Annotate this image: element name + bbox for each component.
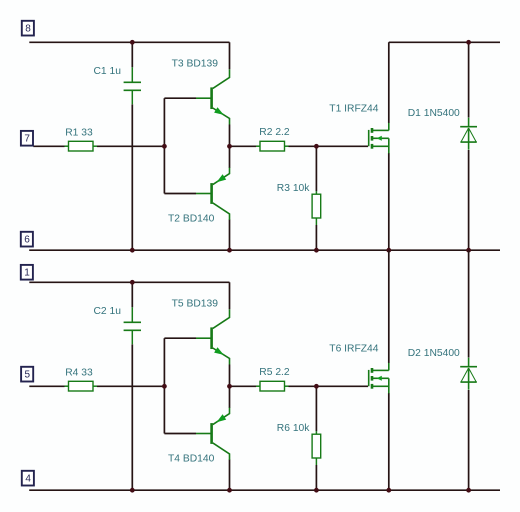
junction rail net 4	[466, 488, 471, 493]
svg-text:D1 1N5400: D1 1N5400	[408, 108, 460, 119]
wire R1 to bases	[97, 145, 164, 147]
wire R6 top	[315, 386, 317, 431]
junction C1 top node	[130, 40, 135, 45]
wire D1 anode down	[468, 150, 470, 250]
svg-text:R1 33: R1 33	[65, 128, 93, 139]
transistor T6 MOSFET	[369, 363, 389, 393]
wire base bracket vertical	[163, 338, 165, 433]
wire rail net 4	[29, 489, 500, 491]
transistor T3 NPN	[196, 69, 230, 124]
wire from terminal 7	[33, 145, 64, 147]
wire R2 to gate	[289, 145, 369, 147]
terminal 6	[21, 232, 33, 247]
wire emitters vertical	[229, 125, 231, 169]
transistor T1 MOSFET	[369, 123, 389, 153]
wire C2 bottom	[131, 344, 133, 490]
junction D1 top node	[466, 40, 471, 45]
wire R3 top	[315, 146, 317, 191]
terminal 1	[21, 265, 33, 280]
svg-text:R6 10k: R6 10k	[277, 423, 310, 434]
wire R6 bottom	[315, 465, 317, 490]
terminal 8	[22, 21, 34, 36]
wire emitters to R2	[230, 145, 257, 147]
wire emitters vertical	[229, 365, 231, 409]
svg-text:5: 5	[25, 369, 31, 380]
svg-text:T6 IRFZ44: T6 IRFZ44	[329, 344, 378, 355]
diode D1	[460, 118, 477, 150]
wire T3 collector drop	[229, 42, 231, 69]
svg-text:T4 BD140: T4 BD140	[168, 454, 215, 465]
svg-text:R5 2.2: R5 2.2	[259, 367, 290, 378]
wire rail net 8	[29, 41, 229, 43]
wire from terminal 5	[29, 385, 64, 387]
junction rail net 6	[227, 248, 232, 253]
transistor T4 PNP	[196, 408, 230, 460]
wire emitters to R5	[230, 385, 257, 387]
terminal 7	[21, 131, 33, 146]
transistor T5 NPN	[196, 309, 230, 364]
wire T5 collector drop	[229, 282, 231, 309]
wire R5 to gate	[289, 385, 369, 387]
junction rail net 4	[227, 488, 232, 493]
svg-text:R3 10k: R3 10k	[277, 183, 310, 194]
wire base bracket vertical	[163, 98, 165, 193]
wire D1 cathode up	[468, 42, 470, 117]
wire T1 drain up	[388, 42, 390, 123]
resistor R6	[312, 431, 321, 465]
wire T2 collector down	[229, 220, 231, 251]
wire R4 to bases	[97, 385, 164, 387]
capacitor C1	[124, 67, 141, 104]
junction rail net 6	[314, 248, 319, 253]
wire R3 bottom	[315, 225, 317, 250]
wire D2 anode down	[468, 390, 470, 490]
wire C2 top	[131, 282, 133, 307]
resistor R4	[65, 381, 98, 391]
wire C1 top	[131, 42, 133, 67]
junction emitter node	[227, 384, 232, 389]
svg-text:C2 1u: C2 1u	[94, 306, 122, 317]
wire drain rail right	[389, 41, 500, 43]
svg-text:7: 7	[24, 134, 30, 145]
svg-text:R4 33: R4 33	[65, 368, 93, 379]
wire T3 base	[164, 97, 196, 99]
wire T2 base	[164, 193, 196, 195]
svg-text:T5 BD139: T5 BD139	[172, 299, 219, 310]
junction C2 top node	[130, 280, 135, 285]
resistor R5	[256, 381, 289, 391]
wire T1 source down	[388, 153, 390, 250]
transistor T2 PNP	[196, 168, 230, 220]
svg-text:6: 6	[24, 235, 30, 246]
junction rail net 4	[386, 488, 391, 493]
wire T4 collector down	[229, 460, 231, 491]
wire T6 drain up	[388, 250, 390, 363]
svg-text:C1 1u: C1 1u	[94, 66, 122, 77]
svg-text:R2 2.2: R2 2.2	[259, 127, 290, 138]
junction rail net 4	[130, 488, 135, 493]
svg-text:T2 BD140: T2 BD140	[168, 214, 215, 225]
junction base node	[162, 144, 167, 149]
resistor R3	[312, 191, 321, 225]
capacitor C2	[124, 307, 141, 344]
svg-text:T1 IRFZ44: T1 IRFZ44	[329, 104, 378, 115]
svg-text:1: 1	[24, 268, 30, 279]
wire D2 cathode up	[468, 250, 470, 357]
svg-text:4: 4	[25, 473, 31, 484]
diode D2	[460, 358, 477, 390]
resistor R1	[65, 141, 98, 151]
junction rail net 6	[386, 248, 391, 253]
wire T4 base	[164, 433, 196, 435]
wire T5 base	[164, 337, 196, 339]
terminal 4	[22, 471, 34, 486]
wire rail net 6	[29, 249, 500, 251]
svg-text:D2 1N5400: D2 1N5400	[408, 348, 460, 359]
resistor R2	[256, 141, 289, 151]
junction gate node	[314, 384, 319, 389]
junction rail net 4	[314, 488, 319, 493]
terminal 5	[21, 367, 33, 382]
junction rail net 6	[466, 248, 471, 253]
wire rail net 1	[29, 281, 229, 283]
junction rail net 6	[130, 248, 135, 253]
svg-text:8: 8	[25, 23, 31, 34]
junction gate node	[314, 144, 319, 149]
wire C1 bottom	[131, 104, 133, 250]
wire T6 source down	[388, 393, 390, 490]
junction emitter node	[227, 144, 232, 149]
junction base node	[162, 384, 167, 389]
svg-text:T3 BD139: T3 BD139	[172, 59, 219, 70]
